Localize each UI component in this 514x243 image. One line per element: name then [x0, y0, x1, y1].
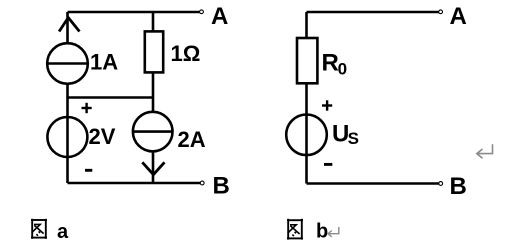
paragraph return mark (gray) right margin: [477, 144, 493, 158]
svg-text:2A: 2A: [178, 127, 206, 152]
svg-text:1A: 1A: [90, 50, 118, 75]
current source I1 1A circle: [47, 43, 88, 84]
svg-text:a: a: [57, 221, 69, 243]
caption 'tu' glyph of 'tu b' (drawn CJK box character): [287, 219, 303, 240]
wire middle node (horizontal): [68, 96, 154, 99]
current source I1 1A arrow (pointing up): [59, 18, 79, 32]
label + polarity of 2V: [82, 103, 92, 113]
label - polarity of US: [324, 163, 332, 166]
wire top rail right circuit: [307, 11, 439, 14]
wire bottom rail right circuit: [307, 182, 439, 185]
resistor R0 body: [297, 38, 317, 83]
wire bottom rail left circuit: [68, 182, 201, 185]
label - polarity of 2V: [85, 169, 92, 172]
terminal node A right circuit (open dot): [439, 10, 443, 14]
voltage source V1 2V circle: [47, 117, 87, 157]
svg-text:0: 0: [338, 60, 347, 79]
svg-text:2V: 2V: [89, 124, 116, 149]
terminal node B right circuit (open dot): [439, 182, 443, 186]
wire right column (resistor bottom through US source to bottom rail): [305, 83, 308, 183]
wire 1A branch vertical (rail corner to circle top): [66, 12, 69, 43]
label + polarity of US: [322, 100, 332, 110]
wire 2A bottom to rail: [152, 151, 155, 183]
wire top corner to resistor R0: [305, 12, 308, 38]
caption 'tu' glyph of 'tu a' (drawn CJK box character): [31, 219, 47, 239]
wire left column (1A bottom through 2V source to bottom rail): [66, 84, 69, 183]
svg-text:A: A: [211, 3, 228, 30]
voltage source US circle: [286, 115, 327, 156]
label R0: [322, 50, 348, 79]
svg-text:1Ω: 1Ω: [171, 41, 201, 66]
terminal node B left circuit (open dot): [200, 181, 204, 185]
wire resistor branch top (rail to resistor): [152, 12, 155, 31]
svg-text:b: b: [316, 220, 328, 242]
paragraph return mark (gray) after caption b: [328, 227, 339, 237]
terminal node A left circuit (open dot): [200, 10, 204, 14]
current source I2 2A circle: [133, 112, 173, 152]
svg-text:B: B: [450, 173, 467, 200]
svg-text:R: R: [322, 50, 339, 77]
current source I2 2A arrow (pointing down): [142, 162, 164, 174]
svg-text:S: S: [348, 129, 359, 148]
wire resistor bottom to 2A source top: [152, 72, 155, 112]
svg-text:B: B: [213, 173, 230, 200]
svg-text:A: A: [450, 3, 467, 30]
wire top rail left circuit: [68, 11, 200, 14]
label US: [332, 121, 359, 149]
resistor R 1ohm body: [145, 31, 163, 72]
